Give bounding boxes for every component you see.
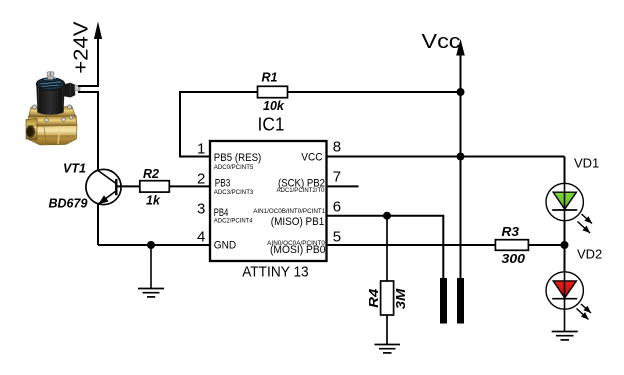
svg-text:7: 7 — [333, 169, 341, 186]
svg-text:IC1: IC1 — [258, 113, 285, 134]
brass body main — [29, 115, 78, 145]
wire emitter to GND pin 4 — [98, 244, 210, 246]
resistor R1 — [258, 71, 288, 114]
svg-text:R4: R4 — [367, 289, 381, 308]
svg-text:8: 8 — [333, 139, 341, 156]
svg-text:ATTINY 13: ATTINY 13 — [242, 263, 309, 280]
wire Vcc rail — [460, 52, 462, 279]
wire valve terminal 2 to collector — [78, 92, 98, 171]
DIN connector — [63, 83, 76, 98]
resistor R3 — [495, 225, 528, 266]
ground (VD2) — [552, 332, 578, 340]
wire valve terminal 1 — [78, 85, 99, 87]
coil (black cylinder) — [36, 84, 64, 115]
svg-text:ADC1/PCINT2/T0: ADC1/PCINT2/T0 — [277, 187, 325, 194]
+24V supply arrow — [94, 22, 102, 40]
resistor R4 — [367, 281, 408, 315]
svg-text:Vcc: Vcc — [422, 31, 461, 53]
svg-text:4: 4 — [197, 229, 205, 246]
wire pin 6 to sensor — [327, 216, 444, 279]
wire LED column down — [564, 157, 566, 246]
svg-text:(MOSI) PB0: (MOSI) PB0 — [270, 244, 326, 256]
wire R4 bottom — [386, 315, 388, 345]
Vcc arrow — [456, 39, 465, 56]
svg-text:3: 3 — [197, 200, 205, 217]
LED VD2 — [546, 272, 591, 320]
svg-text:AIN1/OC0B/INT0/PCINT1: AIN1/OC0B/INT0/PCINT1 — [253, 208, 325, 215]
svg-text:3M: 3M — [394, 288, 408, 309]
ground (emitter) — [138, 245, 164, 297]
touch sensor electrode E2 — [457, 278, 464, 324]
wire VD2 to ground — [564, 308, 566, 332]
wire pin 8 to LED column — [327, 156, 565, 158]
svg-text:VD2: VD2 — [577, 247, 602, 262]
IC1 ATTINY13 — [197, 113, 341, 280]
svg-text:300: 300 — [502, 252, 526, 266]
svg-text:GND: GND — [214, 240, 236, 252]
svg-text:ADC3/PCINT3: ADC3/PCINT3 — [214, 189, 254, 196]
svg-text:R1: R1 — [262, 71, 278, 85]
transistor VT1 — [86, 169, 140, 245]
junction Vcc/pin8 — [457, 153, 465, 161]
svg-text:+24V: +24V — [71, 21, 93, 74]
svg-text:PB5 (RES): PB5 (RES) — [214, 152, 261, 164]
flange screws — [32, 105, 36, 109]
svg-text:R3: R3 — [502, 225, 520, 239]
ground (R4) — [375, 345, 401, 353]
svg-text:VD1: VD1 — [574, 155, 599, 170]
junction LEDs/R3 — [561, 241, 569, 249]
svg-text:ADC2/PCINT4: ADC2/PCINT4 — [214, 217, 253, 224]
junction pin6/R4 — [383, 212, 391, 220]
brass body top flange — [29, 107, 76, 118]
LED VD1 — [546, 183, 592, 233]
svg-text:R2: R2 — [143, 167, 159, 181]
wire pin1 riser — [180, 92, 258, 157]
svg-text:5: 5 — [333, 229, 341, 246]
top screw — [48, 76, 54, 80]
touch sensor electrode E1 — [440, 278, 447, 324]
svg-text:6: 6 — [333, 199, 341, 216]
wire R4 top — [386, 216, 388, 281]
svg-text:VT1: VT1 — [63, 162, 86, 176]
svg-text:(MISO) PB1: (MISO) PB1 — [271, 216, 325, 228]
svg-text:VCC: VCC — [301, 152, 322, 164]
wire pin 5 to R3 — [327, 244, 496, 246]
wire pin 7 stub — [327, 185, 359, 187]
left hex port — [26, 119, 37, 141]
svg-text:PB3: PB3 — [215, 178, 231, 190]
junction emitter/gnd — [147, 241, 155, 249]
solenoid valve Y1 (photo) — [26, 72, 81, 145]
body tier line — [28, 116, 78, 127]
svg-text:1k: 1k — [146, 194, 161, 208]
junction R1/Vcc — [457, 88, 465, 96]
svg-text:1: 1 — [197, 140, 205, 157]
svg-text:ADC0/PCINT5: ADC0/PCINT5 — [214, 164, 254, 171]
svg-text:BD679: BD679 — [49, 197, 88, 211]
resistor R2 — [140, 167, 210, 208]
svg-text:10k: 10k — [263, 99, 285, 113]
wire R1 to Vcc rail — [288, 91, 461, 93]
svg-text:2: 2 — [197, 170, 205, 187]
wire VD1 to VD2 — [564, 220, 566, 272]
wire R3 to LED junction — [528, 244, 564, 246]
wire +24V vertical — [97, 36, 99, 86]
